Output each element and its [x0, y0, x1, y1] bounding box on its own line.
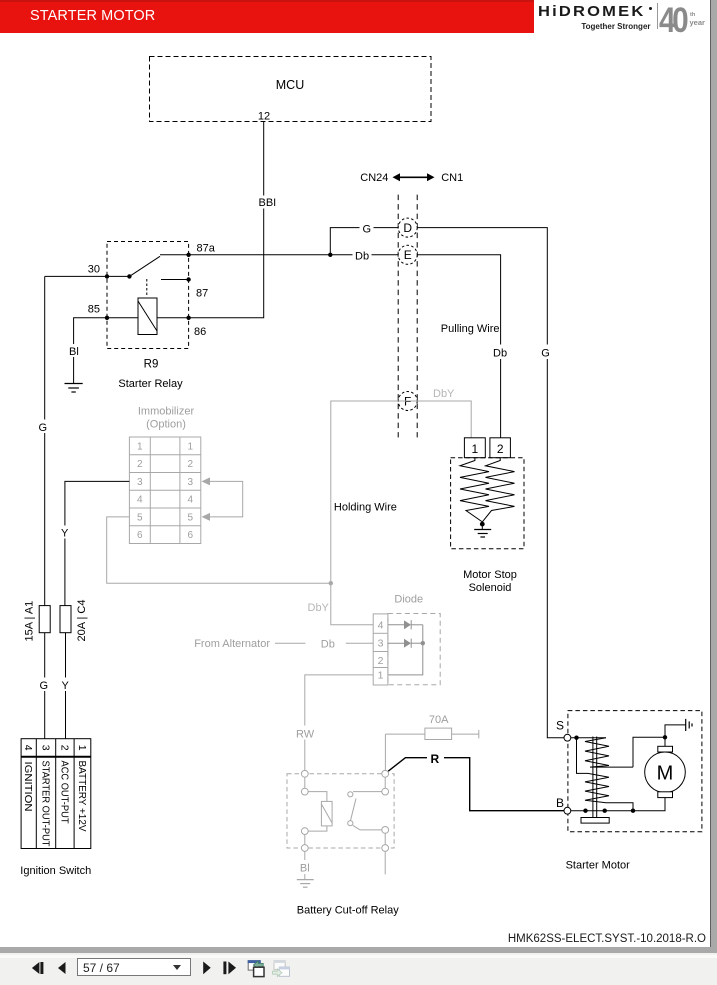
svg-text:G: G — [39, 422, 48, 434]
svg-text:Y: Y — [61, 528, 69, 540]
svg-text:5: 5 — [188, 512, 194, 523]
previous page button — [58, 962, 66, 974]
svg-text:G: G — [363, 223, 372, 235]
cut-off relay coil — [308, 792, 332, 832]
immobilizer pin numbers — [137, 441, 194, 541]
svg-text:Ignition Switch: Ignition Switch — [20, 865, 91, 877]
svg-text:MCU: MCU — [276, 78, 304, 92]
svg-text:Solenoid: Solenoid — [469, 582, 512, 594]
svg-text:85: 85 — [88, 304, 100, 316]
terminal 87 — [186, 277, 208, 299]
terminal 30 — [88, 264, 109, 279]
svg-text:1: 1 — [76, 745, 88, 751]
svg-text:Db: Db — [355, 251, 369, 263]
wire 87a to connector E with junction — [189, 248, 399, 263]
diode D2 (pin 3) — [388, 639, 423, 648]
diode D1 (pin 4) — [388, 620, 423, 629]
battery cut-off relay box — [287, 774, 394, 848]
svg-text:87a: 87a — [197, 243, 216, 255]
ignition switch pin names — [22, 761, 88, 848]
svg-text:2: 2 — [378, 655, 384, 667]
svg-text:70A: 70A — [429, 714, 449, 726]
label DbY (above diode) — [304, 599, 330, 614]
svg-text:2: 2 — [497, 442, 504, 456]
connector labels CN24 / CN1 — [360, 172, 463, 184]
svg-text:G: G — [541, 347, 550, 359]
ground (starter motor) — [665, 719, 692, 737]
svg-text:BBI: BBI — [259, 197, 277, 209]
immobilizer connector (option) — [129, 437, 200, 544]
svg-text:2: 2 — [137, 459, 143, 470]
diode common return to pin 1 — [388, 625, 425, 675]
svg-text:R9: R9 — [144, 359, 159, 371]
svg-text:Starter Relay: Starter Relay — [118, 378, 183, 390]
label Holding Wire — [332, 498, 397, 514]
svg-text:2: 2 — [58, 745, 70, 751]
svg-text:(Option): (Option) — [146, 419, 186, 431]
wire Y (immobilizer pin 3 to fuse 20A) — [60, 481, 130, 605]
previous view button — [248, 960, 264, 976]
svg-text:3: 3 — [378, 638, 384, 650]
fuse 20A C4 — [60, 600, 88, 642]
svg-text:3: 3 — [137, 477, 143, 488]
svg-text:G: G — [40, 680, 49, 692]
svg-text:B: B — [556, 796, 564, 810]
ignition switch pin numbers — [22, 745, 88, 751]
svg-text:E: E — [404, 248, 412, 262]
relay coil — [107, 298, 189, 335]
svg-text:4: 4 — [188, 495, 194, 506]
svg-text:Immobilizer: Immobilizer — [138, 406, 195, 418]
svg-text:86: 86 — [194, 326, 206, 338]
svg-text:ACC OUT-PUT: ACC OUT-PUT — [58, 761, 70, 825]
HIDROMEK logo — [534, 0, 710, 36]
relay R9 box — [107, 242, 189, 391]
connector pin D — [398, 218, 417, 237]
wire Db pulling (connector E to solenoid pin 2) — [417, 255, 509, 438]
svg-text:4: 4 — [137, 495, 143, 506]
wire coil top to motor — [633, 735, 667, 767]
svg-text:IGNITION: IGNITION — [22, 762, 34, 812]
svg-text:6: 6 — [137, 530, 143, 541]
red title banner — [0, 0, 534, 33]
label From Alternator, Db (diode pin 3) — [194, 638, 373, 651]
svg-text:1: 1 — [472, 442, 479, 456]
solenoid coil 1 — [460, 458, 489, 522]
diode connector pins — [373, 614, 388, 685]
wire RW (diode pin 1 to cut-off relay) — [294, 675, 373, 770]
svg-text:Battery Cut-off Relay: Battery Cut-off Relay — [297, 905, 399, 917]
svg-text:12: 12 — [258, 111, 270, 123]
svg-text:RW: RW — [296, 729, 315, 741]
starter solenoid wire from S — [571, 736, 606, 774]
connector pin F — [398, 392, 417, 411]
relay contact 87 stub — [161, 279, 189, 281]
cut-off relay switch — [348, 770, 389, 874]
solenoid pin 1 — [464, 438, 485, 458]
svg-text:Db: Db — [493, 347, 507, 359]
starter hold-in coil — [585, 773, 633, 810]
svg-text:Holding Wire: Holding Wire — [334, 502, 397, 514]
next view button (disabled) — [273, 960, 290, 976]
solenoid coil 2 — [482, 458, 514, 522]
svg-text:Bl: Bl — [69, 346, 79, 358]
svg-text:STARTER OUT-PUT: STARTER OUT-PUT — [40, 761, 52, 848]
next page button — [203, 962, 211, 975]
fuse 15A A1 — [24, 601, 51, 642]
wire DbY holding (junction to connector F to solenoid pin 1) — [329, 401, 472, 585]
svg-text:1: 1 — [137, 441, 143, 452]
label Bl (cut-off relay) — [297, 851, 312, 879]
svg-text:87: 87 — [196, 288, 208, 300]
svg-text:S: S — [556, 719, 564, 733]
last page button — [223, 962, 236, 975]
svg-text:3: 3 — [40, 745, 52, 751]
svg-text:BATTERY +12V: BATTERY +12V — [76, 761, 88, 832]
svg-text:CN1: CN1 — [441, 172, 463, 184]
fuse 70A — [385, 714, 478, 770]
svg-text:Bl: Bl — [300, 863, 310, 875]
terminal 85 — [88, 304, 109, 320]
window right scrollbar strip — [710, 0, 717, 952]
svg-text:Pulling Wire: Pulling Wire — [441, 323, 500, 335]
svg-text:Y: Y — [62, 680, 70, 692]
motor stop solenoid box — [451, 458, 524, 549]
wire BBI (MCU pin 12 to relay 86) — [189, 122, 278, 318]
label Motor Stop Solenoid — [463, 569, 517, 594]
svg-text:Motor Stop: Motor Stop — [463, 569, 517, 581]
svg-text:M: M — [657, 763, 674, 785]
wire junction to connector D — [330, 221, 398, 255]
svg-text:Starter Motor: Starter Motor — [566, 860, 631, 872]
solenoid common junction — [480, 522, 485, 527]
terminal B — [556, 796, 571, 814]
starter plunger — [581, 737, 609, 824]
wire G (connector D to starter S) — [417, 228, 564, 738]
wire R (cut-off relay to starter B) — [388, 751, 564, 811]
wire left rail G (relay 30 to fuse 15A) — [37, 276, 52, 605]
ground (relay 85) — [65, 384, 83, 393]
svg-text:Db: Db — [321, 639, 335, 651]
wire motor to B bus — [571, 798, 665, 813]
ground (solenoid) — [474, 524, 491, 537]
connector boundary dashed lines — [398, 195, 417, 438]
svg-text:3: 3 — [188, 477, 194, 488]
svg-text:4: 4 — [378, 619, 384, 631]
wire from terminal 30 to left rail — [45, 275, 107, 277]
footer doc code — [0, 933, 706, 945]
svg-text:5: 5 — [137, 512, 143, 523]
ground (cut-off relay) — [297, 880, 314, 888]
svg-text:6: 6 — [188, 530, 194, 541]
wire DbY to diode pin 4 — [331, 583, 373, 625]
svg-text:Diode: Diode — [394, 594, 423, 606]
immobilizer title — [138, 406, 195, 431]
window bottom band — [0, 947, 717, 953]
svg-text:20A | C4: 20A | C4 — [76, 600, 88, 642]
terminal 87a — [186, 243, 215, 258]
terminal 86 — [186, 316, 206, 338]
ignition switch connector — [21, 739, 91, 849]
relay switch blade — [107, 255, 189, 279]
label DbY (at connector F) — [431, 386, 456, 400]
motor M — [645, 746, 686, 797]
wire DbY holding (immobilizer pin 5 to junction) — [107, 517, 331, 583]
pdf viewer toolbar — [0, 953, 717, 985]
terminal S — [556, 719, 571, 742]
svg-text:R: R — [431, 752, 440, 766]
cut-off relay terminals left — [301, 770, 308, 851]
svg-text:D: D — [403, 221, 412, 235]
wire Y (fuse to ignition switch pin 2) — [60, 633, 72, 739]
svg-text:DbY: DbY — [433, 388, 455, 400]
svg-text:15A | A1: 15A | A1 — [24, 601, 36, 642]
svg-text:CN24: CN24 — [360, 172, 388, 184]
svg-text:4: 4 — [22, 745, 34, 751]
svg-text:2: 2 — [188, 459, 194, 470]
svg-text:1: 1 — [188, 441, 194, 452]
solenoid pin 2 — [490, 438, 511, 458]
svg-text:DbY: DbY — [308, 602, 330, 614]
wire G (fuse to ignition switch pin 3) — [38, 633, 52, 739]
wire 85 to ground, label Bl — [68, 318, 108, 383]
starter pull-in coil — [585, 738, 633, 767]
svg-text:30: 30 — [88, 264, 100, 276]
immobilizer loopback pins 3-5 — [202, 477, 243, 521]
first page button — [32, 962, 44, 974]
connector pin E — [398, 245, 417, 264]
relay mechanical link — [146, 279, 148, 296]
MCU U-MCU — [150, 57, 432, 122]
diode module box — [388, 614, 440, 685]
starter motor box — [568, 711, 702, 832]
svg-text:1: 1 — [378, 669, 384, 681]
svg-text:From Alternator: From Alternator — [194, 638, 270, 650]
